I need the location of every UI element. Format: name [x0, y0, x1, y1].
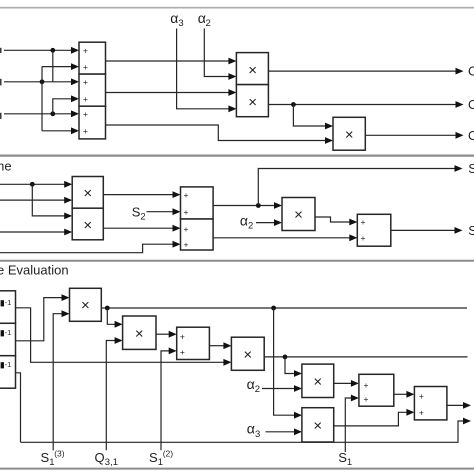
wire alpha2 to multiplier R1 in2	[262, 388, 295, 390]
wire multiplier X2 out to adder G in1	[156, 333, 169, 335]
svg-text:×: ×	[83, 185, 92, 202]
svg-text:×: ×	[248, 94, 257, 111]
svg-text:O: O	[468, 128, 474, 143]
wire to adder row2	[42, 66, 72, 68]
inverse box D3 (cut)	[0, 356, 16, 389]
inverse box D1 (cut)	[0, 291, 16, 324]
svg-text:me: me	[0, 159, 12, 174]
node on X1 out	[105, 306, 110, 311]
svg-text:-1: -1	[5, 298, 12, 307]
svg-text:(3): (3)	[54, 449, 65, 459]
adder box A2 (top)	[79, 74, 106, 106]
svg-text:×: ×	[313, 374, 322, 391]
wire mid long input to adder row4	[0, 244, 173, 253]
node on X1 long line for alpha3 branch	[271, 306, 276, 311]
svg-text:+: +	[83, 77, 88, 87]
wire adder H out to adder K in1	[394, 393, 407, 395]
adder box A1 (top)	[79, 42, 106, 74]
wire branch down to mid row3	[32, 184, 64, 216]
multiplier R1 (bottom alpha2)	[302, 364, 334, 397]
node on adder M out1	[256, 203, 261, 208]
wire multiplier R1 out to adder H in1	[334, 382, 352, 384]
wire mid input 4	[0, 231, 65, 233]
svg-text:-1: -1	[5, 360, 12, 369]
node on input 1	[50, 48, 55, 53]
wire multiplier C out to output 3	[365, 134, 456, 136]
svg-text:+: +	[180, 331, 185, 341]
wire branch down to multiplier R1 in1	[285, 357, 295, 374]
adder box K (bottom)	[414, 387, 447, 420]
svg-text:e Evaluation: e Evaluation	[0, 262, 69, 277]
svg-text:×: ×	[81, 297, 90, 314]
wire mid input 1	[0, 183, 65, 185]
wire branch down to multiplier C in1	[293, 105, 325, 127]
wire input 2	[4, 81, 72, 83]
svg-text:+: +	[184, 207, 189, 217]
svg-text:S: S	[338, 450, 347, 465]
multiplier R2 (bottom alpha3)	[302, 408, 334, 442]
wire multiplier A out to output 1	[268, 70, 456, 72]
svg-text:α: α	[247, 420, 255, 436]
wire alpha3 to multiplier R2 in2	[266, 431, 295, 433]
wire multiplier R2 out up to adder K in2	[334, 412, 407, 426]
wire multiplier B out to output 2	[268, 104, 456, 106]
svg-text:+: +	[83, 94, 88, 104]
svg-text:α: α	[247, 376, 255, 392]
svg-text:+: +	[184, 224, 189, 234]
svg-text:+: +	[83, 62, 88, 72]
svg-text:S: S	[149, 450, 158, 465]
multiplier P (bottom)	[231, 337, 264, 370]
wire S2 to adder row2	[147, 211, 174, 213]
svg-text:+: +	[364, 394, 369, 404]
multiplier A (top)	[236, 53, 268, 85]
wire multiplier P out long line right	[264, 356, 467, 358]
label Q3,1	[95, 450, 119, 468]
adder box M1 (mid)	[181, 187, 214, 219]
S1(3) bus vertical to multiplier X1 in2	[53, 314, 62, 451]
frame top grey line	[0, 7, 474, 9]
node on P out	[283, 355, 288, 360]
svg-text:+: +	[83, 46, 88, 56]
svg-text:α: α	[240, 213, 248, 229]
label S1(2)	[149, 449, 173, 468]
label alpha2 (top)	[198, 10, 211, 29]
inverse box D2 (cut)	[0, 323, 16, 355]
node on input 2	[40, 79, 45, 84]
wire adder A3 out stepping down to multiplier C	[106, 125, 327, 141]
multiplier X2 (bottom)	[123, 316, 156, 349]
arrows into top adder column	[71, 47, 79, 54]
adder box H (bottom)	[359, 374, 394, 406]
svg-text:(2): (2)	[163, 449, 174, 459]
wire branch down to multiplier X2 in1	[107, 308, 115, 324]
wire alpha2 to multiplier N in2	[256, 222, 275, 224]
label S1	[338, 450, 352, 468]
wire branch up to S output 1	[258, 169, 455, 206]
node on multiplier B out	[291, 102, 296, 107]
label alpha2 (mid)	[240, 213, 253, 232]
section divider 1 grey line	[0, 155, 474, 157]
svg-text:+: +	[83, 126, 88, 136]
wire multiplier X1 out long line right	[101, 307, 467, 309]
wire adder G out to multiplier P in1	[209, 345, 224, 347]
svg-text:+: +	[83, 109, 88, 119]
multiplier N (mid)	[282, 198, 315, 231]
svg-text:×: ×	[345, 127, 354, 144]
wire adder A1 out to multiplier A	[106, 60, 230, 62]
svg-text:S: S	[41, 450, 50, 465]
node on input 3	[50, 111, 55, 116]
svg-text:+: +	[361, 233, 366, 243]
svg-text:×: ×	[248, 62, 257, 79]
wire multiplier M1 out to adder row1	[103, 194, 173, 196]
adder box A3 (top)	[79, 106, 106, 139]
wire input 1	[4, 49, 72, 51]
input label sliver r2	[0, 79, 2, 86]
node on mid input 1	[30, 182, 35, 187]
input label sliver r1	[0, 48, 2, 53]
svg-text:1: 1	[347, 457, 352, 468]
wire multiplier M2 out to adder row3	[103, 227, 173, 229]
wire adder F out to S output 2	[391, 229, 456, 231]
svg-text:Q: Q	[95, 450, 105, 465]
wire alpha2 vertical to multiplier A	[204, 29, 229, 77]
wire adder M out1 to multiplier N	[213, 205, 274, 207]
wire adder A2 out to multiplier B	[106, 92, 230, 94]
multiplier X1 (bottom)	[70, 288, 102, 321]
arrows alpha feeds	[228, 73, 236, 80]
wire alpha3 vertical to multiplier B	[177, 29, 229, 109]
multiplier C (top)	[333, 117, 365, 150]
svg-text:×: ×	[294, 206, 303, 223]
adder box F (mid)	[357, 214, 391, 246]
wire branch down to multiplier R2 in1	[274, 308, 295, 415]
input label sliver r3	[0, 113, 2, 119]
svg-text:α: α	[170, 10, 178, 26]
wire to adder row6	[42, 130, 72, 132]
adder box M2 (mid)	[181, 219, 214, 250]
svg-text:+: +	[361, 217, 366, 227]
multiplier M2 (mid)	[72, 208, 103, 240]
svg-text:3: 3	[255, 429, 260, 440]
wire adder M out2 to adder F in2	[213, 237, 350, 239]
svg-text:S: S	[468, 161, 474, 176]
label S2	[132, 205, 146, 223]
svg-text:×: ×	[313, 418, 322, 435]
wire D3 out down to bottom bus	[16, 373, 21, 443]
label S1(3)	[41, 449, 65, 468]
svg-text:×: ×	[135, 326, 144, 343]
frame bottom grey line	[0, 468, 474, 470]
svg-text:3,1: 3,1	[105, 457, 118, 468]
svg-text:2: 2	[140, 211, 145, 222]
label alpha3 (bottom)	[247, 420, 260, 439]
svg-text:-1: -1	[5, 328, 12, 337]
multiplier B (top)	[236, 85, 268, 117]
svg-text:+: +	[419, 408, 424, 418]
svg-text:O: O	[468, 97, 474, 112]
wire branch input3 up to row4	[53, 99, 72, 114]
svg-text:×: ×	[83, 217, 92, 234]
wire multiplier N out step down to adder F in1	[315, 217, 350, 222]
wire branch input1 down to row3	[52, 50, 54, 82]
arrows into mid multipliers	[64, 181, 72, 188]
label alpha2 (bottom)	[247, 376, 260, 395]
adder box G (bottom)	[177, 327, 210, 359]
label alpha3 (top)	[170, 10, 183, 29]
svg-text:+: +	[419, 391, 424, 401]
section divider 2 grey line	[0, 260, 474, 262]
wire branch input2 up to row2 and down to row6	[41, 67, 43, 131]
wire D2 out up to multiplier X1 in1	[16, 298, 63, 341]
S1(2) bus vertical to adder G in2	[161, 351, 169, 450]
bottom bus wire	[21, 421, 464, 442]
svg-text:+: +	[184, 239, 189, 249]
Q31 bus vertical to multiplier X2 in2	[106, 341, 115, 451]
svg-text:2: 2	[248, 220, 253, 231]
svg-text:×: ×	[243, 347, 252, 364]
svg-text:+: +	[364, 380, 369, 390]
wire D1 out down and right (long feed to multiplier P in2)	[16, 308, 225, 363]
S1 bus vertical to adder H in2	[345, 398, 351, 452]
svg-text:2: 2	[255, 384, 260, 395]
wire mid input 2	[0, 199, 65, 201]
multiplier M1 (mid)	[72, 177, 103, 209]
svg-text:S: S	[468, 223, 474, 238]
svg-text:+: +	[184, 190, 189, 200]
wire input 3	[4, 113, 72, 115]
wire adder K out to output arrow	[447, 404, 464, 406]
svg-text:+: +	[180, 347, 185, 357]
svg-text:3: 3	[178, 18, 183, 29]
svg-text:O: O	[468, 64, 474, 79]
svg-text:2: 2	[206, 18, 211, 29]
